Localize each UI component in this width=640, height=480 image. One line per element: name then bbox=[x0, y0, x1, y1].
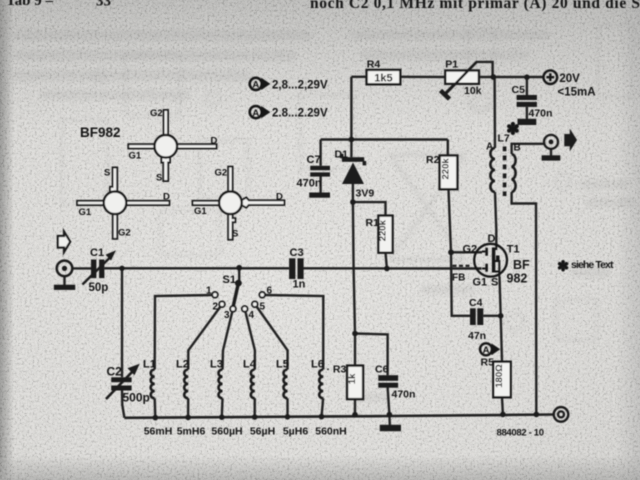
wire L3 bottom bbox=[221, 398, 224, 417]
transformer L7 core bbox=[503, 147, 507, 197]
svg-text:20V: 20V bbox=[559, 73, 580, 85]
svg-text:884082 - 10: 884082 - 10 bbox=[497, 428, 545, 439]
wire R3 C6 junction link bbox=[355, 334, 388, 376]
coil L5 bbox=[276, 359, 289, 399]
capacitor C5 470n bbox=[512, 84, 553, 120]
switch S1 pole bbox=[223, 274, 242, 307]
potentiometer P1 10k bbox=[441, 59, 482, 100]
wire L4 bottom bbox=[253, 398, 256, 417]
svg-text:C5: C5 bbox=[512, 84, 526, 96]
wire S1 common stub bbox=[238, 268, 240, 281]
switch S1 contact 6 bbox=[259, 286, 272, 298]
coil L3 bbox=[210, 359, 223, 399]
ground output terminal bbox=[542, 155, 561, 160]
wire R3 bottom to rail bbox=[354, 399, 356, 415]
wire L5 bottom bbox=[286, 398, 288, 417]
coil L1 bbox=[143, 359, 156, 399]
svg-text:180Ω: 180Ω bbox=[494, 364, 505, 388]
wire D1 column bottom through R3 bbox=[353, 184, 355, 366]
svg-text:A: A bbox=[483, 345, 490, 356]
BF982 package view 1 bbox=[128, 108, 217, 184]
wire output terminal to ground bbox=[550, 149, 552, 156]
input terminal bbox=[57, 261, 73, 277]
wire R4 to P1 bbox=[400, 76, 445, 79]
svg-text:A: A bbox=[252, 80, 259, 91]
svg-text:2: 2 bbox=[213, 302, 219, 313]
svg-text:3: 3 bbox=[224, 310, 230, 321]
svg-text:D: D bbox=[276, 192, 283, 203]
siehe Text note bbox=[557, 259, 614, 275]
capacitor C7 470n bbox=[297, 154, 331, 190]
svg-text:R1: R1 bbox=[366, 217, 380, 229]
BF982 package label bbox=[80, 125, 121, 140]
wire input terminal to ground bar bbox=[63, 276, 65, 285]
svg-text:56µH: 56µH bbox=[250, 426, 275, 438]
svg-text:S: S bbox=[491, 277, 498, 289]
wire P1 wiper to L7 winding A bbox=[443, 62, 495, 148]
wire C2 branch top bbox=[121, 268, 123, 377]
wire S1 contact6 to L6 bbox=[265, 295, 323, 370]
ground C6 bbox=[380, 425, 401, 431]
svg-text:G2: G2 bbox=[215, 168, 228, 179]
capacitor C4 47n bbox=[468, 297, 486, 342]
svg-text:560nH: 560nH bbox=[315, 426, 347, 438]
wire G2 node down to C4 bbox=[451, 252, 470, 315]
svg-text:C4: C4 bbox=[469, 297, 483, 309]
wire L7 B bottom to lower rail bbox=[512, 192, 537, 414]
capacitor C2 500p variable bbox=[106, 364, 150, 405]
svg-text:L5: L5 bbox=[276, 359, 289, 371]
svg-text:G1: G1 bbox=[473, 277, 488, 289]
+20V supply terminal bbox=[544, 70, 596, 98]
coil value labels bbox=[144, 426, 347, 438]
asterisk by L7 bbox=[506, 121, 520, 139]
zener diode D1 3V9 bbox=[335, 149, 375, 200]
wire L7 B top to output terminal bbox=[512, 144, 544, 154]
svg-text:S1: S1 bbox=[223, 274, 236, 286]
svg-text:G2: G2 bbox=[118, 228, 131, 239]
coil L6 bbox=[311, 359, 324, 399]
svg-text:G1: G1 bbox=[194, 206, 207, 217]
wire +20V node to C5 bbox=[526, 77, 528, 95]
transformer L7 winding B bbox=[498, 133, 521, 193]
svg-text:C1: C1 bbox=[90, 247, 104, 259]
wire L1 bottom bbox=[153, 398, 156, 417]
switch S1 contact 2 bbox=[213, 301, 225, 312]
svg-text:S: S bbox=[232, 229, 238, 240]
svg-text:L4: L4 bbox=[243, 359, 257, 371]
wire R5 bottom to rail bbox=[501, 397, 504, 414]
wire input terminal to C1 bbox=[73, 267, 92, 269]
svg-text:470n: 470n bbox=[529, 108, 553, 120]
coil L4 bbox=[243, 359, 257, 399]
wire S1 contact1 to L1 bbox=[155, 295, 213, 370]
wire G2 node to T1 bbox=[451, 251, 482, 253]
svg-text:noch C2 0,1 MHz mit primär (A): noch C2 0,1 MHz mit primär (A) 20 und di… bbox=[310, 0, 640, 12]
wire P1 to +20V terminal bbox=[479, 76, 544, 78]
wire D1 column top bbox=[350, 77, 352, 157]
svg-text:L2: L2 bbox=[176, 359, 189, 371]
page header text fragments bbox=[6, 0, 640, 12]
ghost bleed-through layer bbox=[62, 25, 632, 340]
svg-text:L1: L1 bbox=[143, 359, 156, 371]
svg-text:47n: 47n bbox=[468, 330, 486, 342]
switch S1 contact 5 bbox=[252, 301, 266, 312]
svg-text:220k: 220k bbox=[441, 158, 452, 180]
capacitor C1 50p variable bbox=[82, 247, 116, 294]
wire bottom ground rail bbox=[124, 415, 554, 418]
svg-text:R4: R4 bbox=[367, 58, 381, 70]
svg-text:A: A bbox=[252, 108, 259, 119]
svg-text:50p: 50p bbox=[89, 282, 109, 294]
svg-text:T1: T1 bbox=[507, 244, 520, 256]
wire S1 contact5 to L5 bbox=[257, 307, 288, 370]
svg-text:D: D bbox=[211, 136, 218, 147]
wire C2 branch bottom to rail corner bbox=[122, 391, 124, 418]
svg-text:C3: C3 bbox=[290, 247, 304, 259]
output arrow bbox=[564, 129, 577, 152]
wire S1 contact2 to L2 bbox=[188, 307, 220, 370]
svg-text:G1: G1 bbox=[79, 207, 92, 218]
wire main signal line C3 to G1 of T1 bbox=[304, 267, 482, 270]
svg-text:56mH: 56mH bbox=[144, 426, 173, 438]
svg-text:BF: BF bbox=[513, 258, 530, 272]
svg-text:2.8...2.29V: 2.8...2.29V bbox=[272, 108, 328, 120]
svg-text:3V9: 3V9 bbox=[356, 188, 375, 200]
capacitor C6 470n bbox=[375, 364, 415, 401]
wire S1 contact3 to L3 bbox=[223, 312, 233, 370]
capacitor C3 1n bbox=[289, 247, 306, 291]
ground C7 bbox=[309, 193, 330, 198]
wire R2 column bbox=[448, 140, 451, 253]
svg-text:1k5: 1k5 bbox=[374, 72, 392, 84]
switch S1 contact 3 bbox=[224, 306, 236, 321]
resistor R2 220k bbox=[426, 154, 457, 189]
svg-text:S: S bbox=[156, 173, 162, 184]
probe A annotation lower bbox=[250, 106, 328, 120]
svg-text:1k: 1k bbox=[347, 373, 358, 384]
svg-text:982: 982 bbox=[507, 272, 528, 286]
wire R1 bottom to signal line bbox=[386, 253, 387, 269]
svg-text:L3: L3 bbox=[210, 359, 223, 371]
svg-text:✽: ✽ bbox=[557, 259, 569, 275]
wire C7 node horizontal to R2 corner bbox=[321, 138, 448, 140]
wire C7 bottom to ground bbox=[319, 176, 321, 193]
svg-text:S: S bbox=[104, 168, 110, 179]
wire C5 bottom to ground bbox=[526, 107, 528, 120]
svg-text:FB: FB bbox=[452, 273, 465, 284]
ground C5 bbox=[518, 119, 537, 125]
svg-text:siehe Text: siehe Text bbox=[571, 259, 614, 271]
svg-text:Tab 9 –: Tab 9 – bbox=[6, 0, 53, 9]
svg-text:220k: 220k bbox=[378, 219, 389, 241]
wire L2 bottom bbox=[187, 398, 189, 417]
svg-text:D: D bbox=[488, 233, 496, 245]
svg-text:C2: C2 bbox=[107, 365, 123, 379]
svg-text:G2: G2 bbox=[150, 108, 163, 119]
resistor R3 1k bbox=[327, 364, 364, 399]
resistor R5 180ohm bbox=[481, 357, 511, 398]
switch S1 contact 4 bbox=[242, 306, 255, 321]
svg-text:5mH6: 5mH6 bbox=[177, 426, 206, 438]
ferrite bead FB bbox=[452, 266, 470, 284]
wire T1 source column through C4 node to R5 bbox=[500, 277, 503, 362]
wire C6 bottom through rail to ground bbox=[388, 388, 390, 426]
svg-text:5: 5 bbox=[260, 302, 266, 313]
svg-text:560µH: 560µH bbox=[211, 426, 242, 438]
resistor R1 220k bbox=[366, 216, 393, 253]
svg-text:1n: 1n bbox=[293, 279, 306, 291]
wire C4 right plate to source column bbox=[483, 315, 500, 317]
wire L6 bottom bbox=[322, 398, 324, 416]
svg-text:A: A bbox=[486, 142, 493, 153]
svg-text:· R3: · R3 bbox=[327, 364, 347, 376]
svg-text:R5: R5 bbox=[481, 357, 495, 369]
svg-text:C7: C7 bbox=[307, 154, 321, 166]
resistor R4 1k5 bbox=[367, 58, 401, 84]
wire S1 contact4 to L4 bbox=[245, 312, 255, 370]
svg-text:470n: 470n bbox=[297, 178, 322, 190]
ground input terminal bbox=[54, 285, 75, 290]
svg-text:33: 33 bbox=[96, 0, 111, 10]
switch S1 contact 1 bbox=[206, 286, 218, 298]
svg-text:D1: D1 bbox=[335, 149, 349, 161]
svg-text:6: 6 bbox=[267, 286, 273, 297]
svg-text:1: 1 bbox=[206, 286, 212, 297]
svg-text:BF982: BF982 bbox=[80, 125, 121, 140]
svg-text:5µH6: 5µH6 bbox=[283, 426, 308, 438]
MOSFET T1 BF982 bbox=[463, 233, 531, 289]
input arrow bbox=[58, 232, 70, 253]
probe A annotation upper bbox=[250, 78, 328, 92]
svg-text:2,8...2,29V: 2,8...2,29V bbox=[272, 79, 328, 91]
svg-text:4: 4 bbox=[249, 310, 255, 321]
svg-text:B: B bbox=[514, 143, 521, 154]
wire L7 A bottom to T1 drain bbox=[495, 192, 496, 245]
wire top rail left corner to R4 bbox=[351, 76, 366, 78]
svg-text:470n: 470n bbox=[392, 389, 416, 401]
svg-text:P1: P1 bbox=[445, 59, 458, 71]
coil L2 bbox=[176, 359, 189, 399]
BF982 package view 3 bbox=[193, 167, 285, 240]
wire main signal line C1 to C3 bbox=[105, 267, 290, 269]
svg-text:<15mA: <15mA bbox=[558, 87, 596, 99]
svg-text:10k: 10k bbox=[464, 85, 482, 97]
BF982 package view 2 bbox=[77, 168, 170, 239]
transformer L7 winding A bbox=[486, 142, 495, 193]
svg-text:500p: 500p bbox=[123, 391, 150, 405]
schematic number 884082-10 bbox=[497, 428, 545, 439]
svg-text:R2: R2 bbox=[426, 154, 440, 166]
svg-text:L6: L6 bbox=[311, 359, 324, 371]
wire D1 anode to R1 bbox=[353, 202, 386, 216]
svg-text:D: D bbox=[163, 192, 170, 203]
wire C7 top bbox=[319, 140, 321, 166]
svg-text:C6: C6 bbox=[375, 364, 389, 376]
probe A at source bbox=[480, 343, 500, 356]
output terminal bbox=[544, 135, 558, 149]
svg-text:G2: G2 bbox=[463, 244, 478, 256]
bottom output terminal O bbox=[554, 407, 569, 422]
svg-text:G1: G1 bbox=[129, 151, 142, 162]
